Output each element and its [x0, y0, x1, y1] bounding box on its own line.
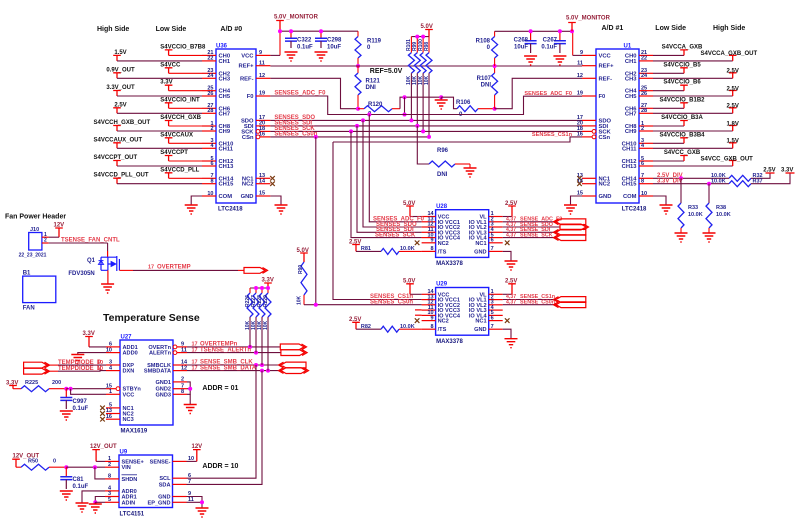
U36 pin 16 CSn [256, 135, 260, 139]
U36 pin 10 COM [202, 195, 216, 197]
ground at ADIN [89, 504, 102, 513]
net flag S4VCCH_GXB_OUT wire to U36 CH9 [113, 126, 121, 132]
svg-text:S4VCCD_PLL: S4VCCD_PLL [160, 167, 199, 173]
resistor R101 10K pullup [410, 37, 412, 53]
svg-text:S4VCCPT: S4VCCPT [160, 150, 188, 156]
svg-text:R96: R96 [437, 148, 449, 154]
net flag 1.8V wire from U1 CH9 [653, 130, 733, 132]
U36 pin 28 CH7 [202, 112, 216, 114]
U27 pin 9 OVERTn [173, 345, 177, 349]
U36 pin 5 CH12 [202, 160, 216, 162]
U29 pin 4 IO VL3 [489, 309, 503, 311]
offpage connector OVERTEMP [244, 268, 268, 274]
svg-text:16: 16 [259, 132, 265, 138]
wire net SENSES_SDI [270, 125, 582, 127]
svg-text:6: 6 [491, 238, 494, 244]
svg-text:C298: C298 [327, 38, 342, 44]
ground at C997 [60, 411, 73, 420]
svg-text:GND: GND [474, 249, 486, 255]
U1 pin 28 CH7 [639, 112, 653, 114]
U36 pin 20 SDI [256, 125, 270, 127]
svg-text:8: 8 [181, 389, 184, 395]
resistor R32 10.0K [729, 175, 751, 181]
capacitor C298 [320, 31, 322, 38]
ground at C267 [553, 56, 566, 65]
offpage connector TEMPDIODE_P [24, 362, 50, 368]
svg-text:SENSE_SMB_DATA: SENSE_SMB_DATA [200, 365, 257, 371]
ground at C268 [524, 56, 537, 65]
U36 pin 1 CH8 [202, 125, 216, 127]
svg-text:REF-: REF- [240, 76, 254, 82]
U1 pin 11 REF+ [582, 65, 596, 67]
svg-text:S4VCCH_GXB: S4VCCH_GXB [160, 115, 201, 121]
resistor R226 10K pullup [249, 288, 251, 293]
U1 pin 12 REF- [582, 77, 596, 79]
svg-text:Fan Power Header: Fan Power Header [5, 214, 66, 221]
U1 pin 26 CH5 [639, 95, 653, 97]
svg-text:11: 11 [577, 60, 583, 66]
svg-text:NC2: NC2 [599, 182, 611, 188]
svg-text:22: 22 [207, 56, 213, 62]
svg-text:0.1uF: 0.1uF [541, 45, 557, 51]
net flag 2.5V wire from U1 CH5 [653, 95, 733, 97]
svg-text:S4VCCIO_B6: S4VCCIO_B6 [663, 80, 701, 86]
svg-text:S4VCCAUX: S4VCCAUX [160, 132, 193, 138]
svg-text:U27: U27 [121, 335, 133, 341]
U1 pin 1 CH8 [639, 125, 653, 127]
node SMB_DATA pullup tap [266, 369, 270, 373]
node ADIN junction [93, 500, 97, 504]
resistor R107 DNI [494, 66, 496, 73]
wire drop to F0 bus [404, 97, 406, 114]
svg-text:5.0V: 5.0V [403, 201, 415, 207]
power flag 5.0V at U29 VCC [406, 284, 414, 295]
wire net 3.3V_DIV [653, 183, 729, 185]
node SCK drop junction [349, 129, 353, 133]
node REF+ junction left [356, 64, 360, 68]
U27 pin 14 SMBCLK [173, 364, 187, 366]
wire to U9 VIN [66, 466, 105, 468]
svg-text:3.3V_OUT: 3.3V_OUT [106, 85, 135, 91]
U27 pin 1 VCC [106, 393, 120, 395]
op-amp U29 body (MAX3378) [436, 288, 489, 336]
capacitor C322 [290, 31, 292, 38]
svg-text:24: 24 [207, 73, 214, 79]
svg-text:High Side: High Side [97, 26, 129, 33]
svg-text:R106: R106 [456, 100, 471, 106]
svg-text:11: 11 [259, 60, 265, 66]
svg-text:C268: C268 [514, 38, 529, 44]
svg-text:0.1uF: 0.1uF [73, 406, 89, 412]
svg-text:3.3V: 3.3V [160, 80, 172, 86]
U27 pin 5 NC1 [106, 407, 120, 409]
offpage connector SENSE_SDO [560, 224, 589, 230]
svg-text:DXN: DXN [123, 369, 135, 375]
U29 pin 8 /TS [422, 328, 436, 330]
wire net 2.5V_DIV [653, 177, 729, 179]
svg-text:R121: R121 [366, 79, 381, 85]
fan B1 body [23, 276, 56, 303]
U1 pin 9 VCC [582, 54, 596, 56]
svg-text:2: 2 [181, 377, 184, 383]
svg-text:2.5V: 2.5V [349, 239, 361, 245]
U28 pin 1 VL [489, 216, 503, 218]
net flag 2.5V wire to U36 CH7 [113, 108, 121, 114]
wire net 17_TSENSE_ALERTn [187, 352, 281, 354]
ground at R33 [675, 233, 688, 242]
svg-text:9: 9 [431, 315, 434, 321]
U36 pin 18 SCK [256, 130, 260, 134]
capacitor C267 [559, 31, 561, 40]
svg-text:22_23_2021: 22_23_2021 [19, 253, 47, 259]
svg-text:2.5V: 2.5V [505, 201, 517, 207]
svg-text:17: 17 [148, 264, 154, 270]
power flag 3.3V at SMB pullups [264, 283, 272, 288]
power flag 5.0V at R90 [300, 253, 308, 262]
wire REF- right route [495, 78, 582, 108]
svg-text:Q1: Q1 [87, 258, 96, 264]
svg-text:R90: R90 [298, 265, 304, 274]
U36 pin 8 CH15 [202, 183, 216, 185]
svg-text:High Side: High Side [713, 25, 745, 32]
ground at U27 ADD0 [71, 355, 84, 364]
wire net 17_SENSE_SMB_DATA [187, 370, 281, 372]
U28 pin 13 IO VCC1 [422, 221, 436, 223]
ground at U9 GND [196, 508, 209, 517]
svg-text:8: 8 [431, 246, 434, 252]
svg-text:2.5V: 2.5V [763, 168, 775, 174]
wire R120 to ground net [400, 97, 441, 109]
node SDA riser tap [260, 369, 264, 373]
svg-text:3.3V: 3.3V [6, 380, 18, 386]
node U9 GND junction [200, 500, 204, 504]
U9 pin 8 SHDN [105, 478, 119, 480]
svg-text:S4VCCIO_INT: S4VCCIO_INT [160, 97, 200, 103]
svg-text:2.5V: 2.5V [727, 69, 739, 75]
svg-text:5.0V: 5.0V [297, 248, 309, 254]
svg-text:3.3V: 3.3V [262, 278, 274, 284]
node VCC branch [69, 387, 73, 391]
svg-text:SENSE_SCK: SENSE_SCK [520, 232, 553, 238]
offpage connector SENSE_SDI [554, 229, 586, 235]
U29 pin 5 IO VL4 [489, 314, 503, 316]
node OVERTEMPn pullup tap [248, 345, 252, 349]
svg-text:2: 2 [44, 238, 47, 244]
U27 pin 15 STBYn [116, 387, 120, 391]
svg-text:REF+: REF+ [599, 64, 615, 70]
net flag S4VCCIO_B3B4 wire from U1 CH10 [653, 142, 684, 144]
U1 pin 22 CH1 [639, 60, 653, 62]
U1 pin 16 CSn [592, 135, 596, 139]
capacitor C268 [530, 31, 532, 40]
svg-text:2.5V: 2.5V [727, 104, 739, 110]
svg-text:12: 12 [181, 365, 187, 371]
svg-text:1.8V: 1.8V [727, 121, 739, 127]
U29 pin 11 IO VCC3 [422, 309, 436, 311]
U29 pin 2 IO VL1 [489, 299, 503, 301]
svg-text:CH13: CH13 [219, 164, 235, 170]
U27 pin 2 GND1 [173, 381, 187, 383]
resistor R100 10K pullup [422, 37, 424, 53]
ground at ADR0 [76, 503, 89, 512]
wire ADR1 join ADIN [95, 497, 105, 503]
U29 pin 6 NC1 [489, 320, 503, 322]
U1 pin 8 CH15 [639, 183, 653, 185]
node R33 tap [679, 176, 683, 180]
U36 pin 25 CH4 [202, 90, 216, 92]
wire net 17_SENSE_SMB_CLK [187, 364, 281, 366]
svg-text:U36: U36 [216, 44, 228, 50]
svg-text:4,37: 4,37 [506, 300, 516, 306]
svg-text:C997: C997 [73, 399, 88, 405]
U1 pin 15 GND [582, 195, 596, 197]
net flag S4VCCPT wire to U36 CH12 [165, 156, 173, 162]
wire VCC rail right [495, 30, 573, 32]
node CS0n drop junction [314, 135, 318, 139]
net flag S4VCCA_GXB wire from U1 CH0 [653, 54, 684, 56]
node SCL riser tap [254, 363, 258, 367]
svg-text:TSENSE_FAN_CNTL: TSENSE_FAN_CNTL [61, 238, 120, 244]
ground at U29 GND [505, 339, 518, 348]
wire net REF- left route [270, 78, 358, 108]
svg-text:F0: F0 [247, 94, 254, 100]
net flag S4VCCD_PLL wire to U36 CH14 [165, 173, 173, 179]
transistor Q1 FDV305N (P-MOSFET) [99, 256, 120, 271]
net flag S4VCC wire to U36 CH2 [165, 68, 173, 74]
svg-text:VCC: VCC [599, 53, 612, 59]
net flag S4VCCAUX_OUT wire to U36 CH11 [113, 143, 121, 149]
U1 pin 6 CH13 [639, 165, 653, 167]
svg-text:R98: R98 [424, 42, 430, 51]
svg-text:NC1: NC1 [475, 319, 486, 325]
svg-text:S4VCCA_GXB: S4VCCA_GXB [662, 44, 703, 50]
node on F0 bus [403, 113, 407, 117]
svg-text:S4VCC_GXB_OUT: S4VCC_GXB_OUT [701, 156, 754, 162]
U36 pin 14 NC2 [256, 183, 270, 185]
U29 pin 7 GND [489, 328, 503, 330]
svg-text:0.1uF: 0.1uF [73, 484, 89, 490]
U36 pin 11 REF+ [256, 65, 270, 67]
svg-text:3.3V: 3.3V [83, 331, 95, 337]
wire net TEMPDIODE_N [47, 370, 58, 372]
svg-text:CH13: CH13 [622, 164, 638, 170]
U28 pin 3 IO VL2 [489, 226, 503, 228]
power flag 3.3V at U27 ADD1 [85, 337, 93, 347]
net flag S4VCCIO_B5 wire from U1 CH2 [653, 72, 684, 74]
svg-text:8: 8 [108, 474, 111, 480]
svg-text:28: 28 [641, 108, 647, 114]
svg-text:10.0K: 10.0K [688, 212, 703, 218]
svg-text:SDA: SDA [159, 482, 171, 488]
svg-text:U9: U9 [120, 450, 128, 456]
svg-text:Low Side: Low Side [655, 25, 686, 32]
wire VIN to SHDN [95, 467, 105, 479]
svg-text:12V: 12V [54, 223, 65, 229]
svg-text:SENSES_SCK: SENSES_SCK [375, 232, 416, 238]
svg-text:COM: COM [219, 194, 233, 200]
U27 pin 8 GND3 [173, 393, 187, 395]
U27 GND bus [187, 382, 190, 394]
U27 pin 4 DXN [106, 370, 120, 372]
capacitor C81 [65, 467, 67, 477]
wire net SENSES_CS1n [333, 137, 582, 142]
node SDO drop junction [361, 118, 365, 122]
node REF+ junction right [493, 64, 497, 68]
svg-text:10: 10 [106, 347, 112, 353]
U36 pin 4 CH11 [202, 147, 216, 149]
svg-text:MAX3378: MAX3378 [436, 339, 463, 345]
svg-text:12: 12 [259, 73, 265, 79]
svg-text:3.3V_DIV: 3.3V_DIV [657, 178, 683, 184]
svg-text:SENSE_CS0n: SENSE_CS0n [520, 300, 555, 306]
U1 pin 24 CH3 [639, 77, 653, 79]
ground at U1 COM [660, 205, 673, 214]
svg-text:2.5V: 2.5V [349, 317, 361, 323]
svg-text:VCC: VCC [241, 53, 254, 59]
U29 pin 1 VL [489, 293, 503, 295]
U27 pin 16 NC3 [106, 418, 120, 420]
svg-text:SENSES_ADC_F0: SENSES_ADC_F0 [274, 91, 326, 97]
svg-text:B1: B1 [23, 270, 31, 276]
svg-text:0.9V_OUT: 0.9V_OUT [106, 67, 135, 73]
U28 pin 10 IO VCC4 [422, 237, 436, 239]
svg-text:CH9: CH9 [625, 129, 637, 135]
U1 pin 14 NC2 [582, 183, 596, 185]
ground at U1 GND [564, 205, 577, 214]
svg-text:7: 7 [491, 324, 494, 330]
power flag 5.0V at U28 VCC [406, 206, 414, 217]
U1 pin 19 F0 [582, 95, 596, 97]
resistor R96 DNI pulldown [417, 126, 429, 164]
ground at Q1 [101, 284, 114, 293]
power flag 12V_OUT at U9 SENSE+ [92, 450, 100, 462]
svg-text:SCL: SCL [159, 476, 171, 482]
U29 pin 3 IO VL2 [489, 304, 503, 306]
U1 pin 7 CH14 [639, 177, 653, 179]
op-amp U27 body (MAX1619) [120, 340, 173, 425]
svg-text:16: 16 [106, 414, 112, 420]
U1 GND ground wire [571, 196, 583, 205]
resistor R229 10K pullup [267, 288, 269, 293]
U28 pin 8 /TS [422, 250, 436, 252]
op-amp U1 body (LTC2418 A/D #1) [596, 49, 639, 203]
svg-text:MAX3378: MAX3378 [436, 261, 463, 267]
svg-text:GND1: GND1 [155, 380, 171, 386]
offpage connector TSENSE_ALERTn [281, 350, 307, 356]
svg-text:6: 6 [491, 315, 494, 321]
wire net REF+ bus [270, 65, 582, 67]
svg-text:CH11: CH11 [219, 146, 234, 152]
ground at C322 [285, 52, 298, 61]
svg-text:R120: R120 [368, 102, 383, 108]
resistor R82 10.0K [356, 328, 381, 330]
wire to STBYn [66, 388, 106, 390]
wire net SENSES_SCK [270, 130, 582, 132]
svg-text:28: 28 [207, 108, 213, 114]
wire SDA riser [187, 371, 263, 485]
svg-text:DNI: DNI [481, 83, 492, 89]
svg-text:NC1: NC1 [475, 241, 486, 247]
offpage connector SENSE_CS1n [554, 297, 586, 303]
svg-text:2: 2 [210, 126, 213, 132]
svg-text:19: 19 [577, 91, 583, 97]
svg-text:5: 5 [108, 497, 111, 503]
svg-text:VCC: VCC [123, 392, 135, 398]
ground at C81 [60, 491, 73, 500]
svg-text:S4VCC_GXB: S4VCC_GXB [664, 150, 701, 156]
net flag S4VCC_GXB wire from U1 CH12 [653, 160, 684, 162]
node R38 tap [707, 182, 711, 186]
svg-text:12: 12 [577, 73, 583, 79]
svg-text:16: 16 [577, 132, 583, 138]
svg-text:10K: 10K [263, 320, 269, 330]
U28 pin 7 GND [489, 250, 503, 252]
U28 right net wires and labels [503, 221, 556, 223]
svg-text:CH5: CH5 [625, 94, 637, 100]
resistor R121 DNI [357, 66, 359, 73]
svg-text:0.1uF: 0.1uF [297, 45, 313, 51]
svg-text:R229: R229 [263, 295, 269, 307]
wire SMB pullup rail [250, 287, 268, 289]
svg-text:S4VCCIO_B3B4: S4VCCIO_B3B4 [659, 132, 705, 138]
svg-text:SENSES_CS0n: SENSES_CS0n [274, 132, 317, 138]
U9 pin 6 SCL [173, 477, 187, 479]
svg-text:J10: J10 [30, 227, 39, 233]
svg-text:2.5V: 2.5V [505, 279, 517, 285]
svg-text:CH5: CH5 [219, 94, 231, 100]
net flag S4VCCIO_B6 wire from U1 CH4 [653, 90, 684, 92]
resistor R119 [357, 31, 359, 36]
U36 pin 15 GND [256, 195, 270, 197]
wire net SENSES_CS0n [270, 136, 429, 138]
U9 pin 5 ADIN [105, 501, 119, 503]
ground symbol mid [435, 100, 448, 109]
svg-text:REF=5.0V: REF=5.0V [370, 68, 403, 75]
svg-text:R107: R107 [477, 76, 492, 82]
svg-text:8: 8 [431, 324, 434, 330]
svg-text:/TS: /TS [438, 249, 447, 255]
svg-text:CSn: CSn [242, 135, 254, 141]
svg-text:CH15: CH15 [622, 182, 638, 188]
resistor R225 200 [13, 388, 21, 390]
U27 pin 7 GND2 [173, 388, 187, 390]
power flag 2.5V at R81 [352, 245, 360, 252]
U29 unconnected stubs pins 11 and 10 [415, 309, 422, 311]
U36 pin 24 CH3 [202, 77, 216, 79]
ground at R38 [703, 233, 716, 242]
junction dots right VCC rail [529, 29, 533, 33]
node F0 drop junction [367, 113, 371, 117]
wire CS1n drop to U29 [333, 142, 422, 300]
svg-text:10K: 10K [297, 295, 303, 305]
junction dots SMB rail [254, 286, 258, 290]
svg-text:R38: R38 [716, 205, 726, 211]
U9 pin 11 EP_GND [173, 501, 187, 503]
svg-text:GND: GND [241, 194, 254, 200]
svg-text:6: 6 [641, 161, 644, 167]
svg-text:F0: F0 [599, 94, 606, 100]
svg-text:5.0V: 5.0V [421, 24, 433, 30]
svg-text:/TS: /TS [438, 327, 447, 333]
ground at U28 GND [505, 261, 518, 270]
svg-text:CH9: CH9 [219, 129, 231, 135]
U28 pin 2 IO VL1 [489, 221, 503, 223]
U28 pin 6 NC1 [489, 242, 503, 244]
svg-text:NC2: NC2 [242, 182, 254, 188]
J10 pin 1 [42, 236, 49, 238]
svg-text:4,37: 4,37 [506, 232, 516, 238]
offpage connector SENSE_SMB_CLK [279, 362, 307, 368]
